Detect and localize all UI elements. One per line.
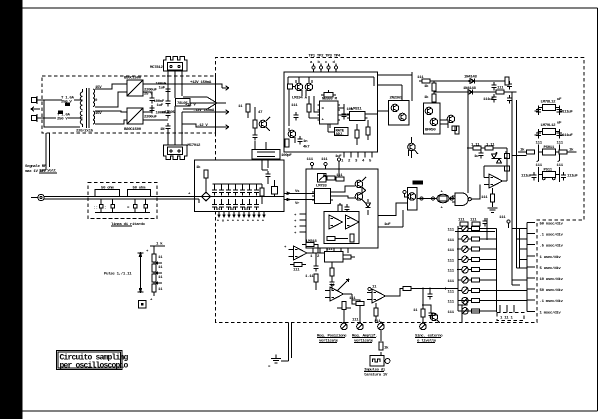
svg-text:4k7: 4k7 — [303, 145, 310, 150]
svg-text:.1 usec/div: .1 usec/div — [540, 233, 564, 238]
U4 left-bottom transistor Q3 — [288, 128, 296, 143]
P2 label — [352, 334, 377, 344]
attenuator ladder R93 — [152, 282, 156, 296]
dimension bracket — [138, 253, 144, 292]
U9 output resistor R43 — [481, 188, 498, 212]
strobe coupling box — [252, 142, 292, 159]
svg-text:111: 111 — [497, 87, 504, 91]
U12 to pair wires — [333, 186, 362, 198]
svg-text:ADJ.: ADJ. — [336, 133, 344, 137]
filter cap C7 — [156, 110, 171, 118]
svg-text:.5 usec/div: .5 usec/div — [540, 244, 564, 249]
output wire +12V — [168, 81, 229, 90]
pair label — [292, 97, 308, 101]
vertical amp block U11 box — [306, 169, 378, 248]
svg-text:2200uF: 2200uF — [144, 115, 158, 119]
U11 left pins — [294, 214, 306, 236]
U4 bottom resistor R32 — [285, 139, 289, 147]
svg-text:LM78L12: LM78L12 — [541, 101, 557, 105]
delay line label — [111, 222, 146, 227]
svg-text:111: 111 — [448, 280, 455, 284]
secondary tap labels — [95, 86, 102, 116]
timebase switch row 7 — [448, 287, 497, 294]
timebase switch row 1 — [448, 225, 497, 232]
regulator U1 heatsink — [164, 57, 188, 72]
sampling cell 7 — [254, 184, 259, 210]
U10 panel label — [413, 181, 424, 185]
timebase switch row 4 — [448, 256, 497, 263]
hold cap C60 — [305, 253, 319, 290]
svg-text:per oscilloscopio: per oscilloscopio — [60, 362, 129, 371]
sampling cell 4 — [233, 184, 238, 210]
central oscillator block U4 box — [284, 72, 378, 152]
svg-text:10 usec/div: 10 usec/div — [540, 277, 564, 282]
pulse rail 1 — [417, 76, 505, 84]
rail caps C41 — [505, 77, 512, 103]
attenuator ladder R91 — [152, 262, 156, 272]
gate to comparator wire — [471, 185, 480, 200]
cap C42 — [474, 150, 484, 159]
U5 top trim — [321, 90, 336, 97]
svg-text:1 usec/div: 1 usec/div — [540, 255, 562, 260]
R33 — [355, 124, 359, 145]
svg-text:1N4148: 1N4148 — [463, 87, 477, 91]
sampling cell 3 — [226, 184, 231, 210]
svg-text:::: :: — [94, 207, 98, 211]
timebase switch row 5 — [448, 266, 497, 273]
sampling cell 2 — [219, 184, 224, 210]
svg-text:LM79L12: LM79L12 — [541, 124, 557, 128]
svg-text:111: 111 — [536, 142, 543, 146]
driver block U7 box — [389, 97, 410, 126]
G2 label — [364, 368, 388, 378]
vertical feed wire — [467, 92, 469, 193]
misc junction dots on rails — [343, 322, 424, 324]
svg-text:111: 111 — [557, 164, 564, 168]
chain wire b — [449, 197, 455, 200]
test point box — [139, 301, 147, 309]
range label 8 — [540, 299, 564, 304]
svg-text:111uF: 111uF — [562, 111, 573, 115]
R61 — [290, 263, 306, 273]
range label 5 — [540, 266, 562, 271]
sampler bus wire — [195, 196, 285, 203]
fuse F1 — [61, 97, 75, 107]
svg-text:111uF: 111uF — [562, 134, 573, 138]
attenuator ladder R92 — [152, 272, 156, 282]
smoothing caps C1 C2 — [143, 84, 168, 103]
range label 6 — [540, 277, 564, 282]
pad S1 — [452, 126, 457, 131]
R42 — [440, 120, 459, 134]
U10 top pin — [403, 190, 408, 197]
U13 op-amp A — [329, 215, 343, 229]
blocking transistor Q4 — [408, 137, 416, 156]
svg-text:111: 111 — [336, 174, 343, 178]
timebase dashed sub-box — [497, 305, 524, 321]
svg-text:Pulse 1,/1.11: Pulse 1,/1.11 — [104, 272, 132, 277]
regulator U2 label — [188, 144, 202, 148]
filter cap C6 — [154, 96, 171, 108]
svg-text:111: 111 — [448, 239, 455, 243]
svg-text:50 ohm: 50 ohm — [133, 185, 147, 190]
trigger input label — [25, 164, 48, 174]
delay line dashed box — [88, 182, 157, 218]
U8 transistor Qd — [430, 118, 438, 126]
delay rail — [468, 144, 507, 151]
range label 4 — [540, 255, 562, 260]
pot P3 calibration — [374, 320, 389, 356]
U4 bottom pins — [341, 152, 372, 164]
zener D5 — [160, 123, 171, 132]
U13 op-amp B — [346, 215, 360, 229]
U11 caps C50 — [344, 204, 350, 219]
svg-text:1.11: 1.11 — [486, 144, 495, 148]
svg-text:111uF: 111uF — [567, 175, 578, 179]
strobe feed resistor R80 — [238, 104, 250, 118]
regulator legs bottom — [167, 106, 183, 145]
comparator op-amp U9 — [484, 174, 507, 188]
frame bottom line — [23, 410, 598, 412]
sampler cap C20 — [265, 171, 270, 184]
svg-text:1uF: 1uF — [335, 155, 342, 159]
svg-text:111: 111 — [307, 158, 314, 162]
supply sub-circuit PS1 — [534, 98, 573, 115]
svg-text:1N4148: 1N4148 — [464, 76, 478, 80]
svg-text::: : — [104, 207, 106, 211]
transformer TR1 secondary — [93, 89, 95, 124]
comparator U6 — [340, 108, 378, 121]
U7 transistor Qa — [391, 104, 399, 112]
U11 to buffer wire A — [378, 203, 408, 216]
svg-text:111: 111 — [448, 290, 455, 294]
bias square — [288, 84, 296, 89]
P1 label — [317, 334, 347, 344]
U9 feedback — [484, 166, 507, 181]
svg-text:15V: 15V — [95, 112, 102, 116]
transformer TR1 primary — [80, 89, 83, 127]
pot P1 vertical position — [337, 302, 351, 330]
label panel box — [335, 128, 349, 138]
wires inside U4 top — [288, 77, 374, 86]
svg-text:111: 111 — [352, 319, 359, 323]
svg-text:111: 111 — [448, 270, 455, 274]
range label 1 — [540, 222, 564, 227]
oscillator input pair Q1 — [295, 80, 303, 96]
strobe network column — [252, 107, 263, 150]
U10 transistor — [408, 193, 416, 201]
pot P4 sync — [420, 288, 427, 330]
sampler top rail — [213, 183, 263, 185]
U11 R52 — [336, 174, 344, 181]
sampler to amp wire A — [284, 190, 306, 195]
X out op-amp U17 — [367, 286, 392, 304]
net labels above dashed — [309, 55, 341, 59]
svg-text:250 V: 250 V — [57, 118, 68, 122]
DL2 trim caps — [127, 199, 147, 213]
buffer block U10 box — [408, 188, 418, 211]
ground drop wires — [281, 323, 292, 362]
svg-text:111: 111 — [448, 249, 455, 253]
svg-text:1 msec/div: 1 msec/div — [540, 310, 562, 315]
terminal pin TP5 — [499, 216, 510, 228]
U11 diode D30 — [366, 199, 371, 215]
amp IC U12 — [312, 185, 333, 204]
svg-text:1uF: 1uF — [159, 87, 166, 91]
U17 ground leg — [374, 303, 378, 321]
output wire -12V — [182, 109, 229, 114]
U11 bottom pins — [310, 248, 348, 261]
U11 R51 — [338, 203, 342, 218]
bank feed cluster — [458, 301, 467, 323]
R63 — [349, 294, 364, 304]
DL1 trim caps — [94, 199, 151, 213]
bridge rectifier B2 — [124, 108, 143, 132]
long verticals to timebase — [512, 92, 517, 285]
junction marks at bus — [188, 193, 191, 197]
svg-text:-12V 150mA: -12V 150mA — [193, 109, 215, 113]
svg-text:Segnale RF: Segnale RF — [25, 164, 47, 169]
mains plug J1 — [31, 96, 44, 122]
svg-text:111: 111 — [458, 219, 465, 223]
BNC input connector — [31, 194, 44, 200]
wires secondary to bridges — [95, 84, 127, 124]
gate block U8 box — [424, 103, 441, 134]
svg-text:TP1 TP2 TP3 TP4: TP1 TP2 TP3 TP4 — [309, 55, 341, 59]
trigger gate G1 — [452, 193, 471, 205]
svg-text:111: 111 — [293, 269, 300, 273]
R30 — [307, 96, 320, 118]
svg-text:50 ohm: 50 ohm — [101, 185, 115, 190]
delay line DL2 — [128, 185, 151, 196]
U11 trimmer — [318, 174, 327, 183]
calibrator label — [104, 272, 132, 277]
U13 bottom parts — [327, 234, 354, 242]
timebase switch row 6 — [448, 277, 497, 284]
timebase switch row 3 — [448, 246, 497, 253]
svg-text:111: 111 — [417, 76, 424, 80]
U14 feedback resistor R60 — [302, 240, 318, 253]
attenuator ladder R90 — [152, 250, 156, 262]
calibration pulse generator G2 — [370, 356, 390, 367]
P4 network — [413, 304, 438, 318]
U8 transistor Qc — [425, 107, 433, 115]
regulator U2 heatsink — [164, 145, 188, 160]
ladder top feed — [146, 242, 165, 255]
switch bank left bus — [457, 226, 485, 311]
bank row links — [497, 223, 528, 312]
strobe pin labels — [310, 60, 336, 65]
tunnel diode chain wire — [417, 197, 438, 200]
svg-text:111: 111 — [291, 104, 298, 108]
svg-text:111: 111 — [499, 216, 506, 220]
timebase switch row 8 — [448, 297, 497, 304]
sampler block box — [195, 160, 285, 212]
U4 to driver wires — [378, 72, 413, 111]
supply sub-circuit PS2 — [534, 122, 573, 139]
svg-text:111uF: 111uF — [483, 98, 494, 102]
ladder taps — [156, 256, 163, 292]
svg-text:111: 111 — [557, 142, 564, 146]
svg-text:LM194 A: LM194 A — [292, 97, 308, 101]
mains drop wire — [46, 133, 50, 170]
regulator legs top — [167, 71, 183, 98]
U11 to buffer wire B — [378, 210, 403, 227]
svg-text:B80C1500: B80C1500 — [124, 77, 142, 81]
ramp vertical — [505, 148, 510, 181]
svg-text:111uF: 111uF — [521, 175, 532, 179]
regulator U3 78L05 — [176, 99, 227, 107]
sub3 feed wire — [512, 154, 527, 156]
wire mains to transformer — [44, 100, 80, 127]
left rail resistors R40 R41 — [424, 81, 436, 103]
U5 label — [322, 98, 338, 102]
U11 transistor Qe — [355, 177, 366, 191]
diode pair D20 — [492, 152, 502, 163]
svg-text:MC7812: MC7812 — [150, 66, 164, 70]
U4 misc caps — [297, 136, 310, 150]
fuse F2 — [57, 111, 71, 122]
svg-text:111: 111 — [448, 229, 455, 233]
rail caps C40 — [483, 82, 497, 102]
svg-text:111: 111 — [448, 259, 455, 263]
svg-text:50 nsec/div: 50 nsec/div — [540, 222, 564, 227]
output stage box U13 — [324, 212, 359, 244]
sampler R22 — [272, 180, 278, 196]
chassis ground — [268, 355, 281, 370]
svg-text:BFR90: BFR90 — [425, 129, 436, 133]
U11 R50 — [326, 169, 339, 180]
svg-text:100pF: 100pF — [281, 154, 292, 158]
mains label — [39, 169, 57, 174]
svg-text:LM318: LM318 — [306, 240, 317, 244]
sampling cell 6 — [247, 184, 252, 210]
memory block U15 — [316, 248, 355, 262]
supply sub-circuit PS4 — [521, 164, 578, 182]
svg-text:111: 111 — [536, 164, 543, 168]
bridge rectifier B1 — [124, 77, 143, 96]
svg-text:1uF: 1uF — [384, 223, 391, 227]
hold-off parts R70 — [455, 218, 495, 240]
range label 7 — [540, 288, 564, 293]
coax bus line — [44, 196, 194, 199]
range label 3 — [540, 244, 564, 249]
X line to timebase — [392, 287, 458, 297]
P4 label — [415, 334, 443, 344]
strobe transistor Q5 — [259, 117, 270, 131]
timing IC U5 — [318, 101, 341, 124]
U16 trim arrow — [337, 279, 349, 291]
U12 input wires — [306, 193, 315, 199]
svg-text:MC7912: MC7912 — [188, 144, 202, 148]
svg-text:LM311: LM311 — [351, 108, 362, 112]
svg-text:111: 111 — [481, 196, 488, 200]
svg-text:1 k: 1 k — [156, 242, 163, 247]
connector stub lines — [527, 223, 535, 312]
strobe pins above — [312, 64, 338, 73]
svg-text:111: 111 — [448, 311, 455, 315]
transformer label — [76, 129, 94, 134]
transistor Q6 — [447, 115, 455, 128]
sampler right network R21 — [260, 184, 264, 204]
smoothing caps C3 C4 — [143, 105, 168, 120]
timebase switch row 2 — [448, 236, 497, 243]
bank right vertical A — [496, 229, 498, 313]
svg-text:111: 111 — [470, 219, 477, 223]
sampler internal rail 2 — [262, 160, 268, 170]
filter cap C5 — [156, 83, 171, 95]
sync cluster C70 — [427, 288, 432, 300]
U11 top pins — [307, 155, 343, 169]
regulator U1 label — [150, 66, 164, 70]
svg-text:NE555 M: NE555 M — [322, 98, 338, 102]
label uA7805 — [162, 111, 176, 115]
feedback op-amp U14 — [284, 246, 316, 260]
title block box — [57, 351, 123, 370]
title text — [60, 354, 129, 371]
U11 transistor Qf — [355, 190, 366, 204]
U4 left rail — [289, 89, 299, 126]
sampling cell 1 — [212, 184, 217, 210]
oscillator input pair Q2 — [305, 80, 313, 96]
svg-text:1 11 1: 1 11 1 — [500, 317, 514, 321]
svg-text:B80C1500: B80C1500 — [124, 128, 142, 132]
svg-text:+12V 150mA: +12V 150mA — [190, 81, 212, 85]
svg-text:111: 111 — [374, 320, 381, 324]
frame right line — [596, 8, 598, 411]
U7 transistor Qb — [399, 113, 407, 121]
svg-text:50 usec/div: 50 usec/div — [540, 288, 564, 293]
supply sub-circuit PS3 — [518, 142, 576, 165]
sampling cell 5 — [240, 184, 245, 210]
svg-text:5 usec/div: 5 usec/div — [540, 266, 562, 271]
timebase switch row 9 — [448, 308, 497, 315]
range label 9 — [540, 310, 562, 315]
R62 — [329, 262, 334, 290]
svg-text:1uF: 1uF — [157, 104, 164, 108]
Y amp op-amp U16 — [325, 284, 352, 301]
sampler to amp wire B — [284, 198, 306, 206]
sampler ground arrows row — [217, 212, 266, 224]
svg-text:25 V: 25 V — [144, 93, 153, 97]
sampling diode bridge D10 — [202, 192, 211, 201]
input resistor R20 — [196, 165, 208, 192]
svg-text:111: 111 — [321, 158, 328, 162]
output wire -12V b — [182, 124, 229, 129]
svg-text:100nF: 100nF — [156, 112, 167, 116]
range label 2 — [540, 233, 564, 238]
svg-text:max 1V eff.: max 1V eff. — [25, 169, 48, 174]
U4 internal wires — [314, 96, 344, 132]
svg-text:-12 V: -12 V — [197, 124, 208, 128]
ladder bottom mark — [150, 299, 153, 303]
svg-text:1.11: 1.11 — [305, 275, 314, 279]
svg-text:taratura 1V: taratura 1V — [364, 372, 388, 377]
pulse rail 2 — [434, 87, 517, 95]
main dashed enclosure — [216, 58, 585, 323]
svg-text:220/2x15: 220/2x15 — [76, 129, 94, 134]
power supply dashed enclosure — [42, 76, 216, 133]
svg-text:2N2369: 2N2369 — [390, 97, 404, 101]
output net flag +12V — [183, 97, 217, 109]
svg-text:.1 msec/div: .1 msec/div — [540, 299, 564, 304]
delay line DL1 — [95, 185, 120, 196]
svg-text:+12 V: +12 V — [185, 104, 196, 108]
pot P2 vertical gain — [352, 302, 364, 330]
R34 — [366, 120, 370, 140]
svg-text:111: 111 — [448, 301, 455, 305]
frame top line — [23, 7, 598, 9]
